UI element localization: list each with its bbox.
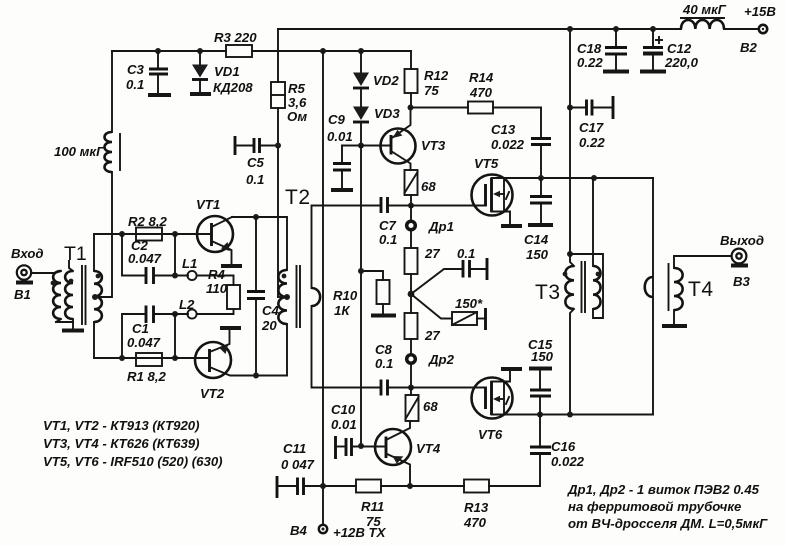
svg-text:68: 68 [421, 179, 436, 194]
ground below VD1 [190, 92, 211, 96]
wire C1 branch left [122, 314, 144, 358]
svg-text:C4: C4 [262, 303, 280, 318]
ferrite bead L2 [187, 309, 196, 318]
wire VT2 base branch x=175 [174, 314, 176, 358]
svg-text:Др2: Др2 [428, 352, 455, 367]
svg-text:T3: T3 [535, 281, 561, 304]
node junction B4 rail / bottom line [320, 483, 326, 489]
T3 phase dots [563, 272, 568, 277]
terminal B1 input [17, 265, 31, 279]
ground VT5 source [501, 224, 522, 228]
wire +15V right rail x=570 [569, 29, 571, 254]
svg-text:C16: C16 [551, 439, 576, 454]
wire C2 to L1 node [154, 275, 189, 277]
svg-text:В2: В2 [740, 40, 758, 55]
transformer T3 left winding [570, 254, 574, 266]
wire VT5 drain line y=178 [492, 177, 654, 179]
ground below C9 [331, 188, 353, 192]
diode VD2 [360, 51, 362, 73]
wire bias line x=361 down [360, 146, 362, 447]
svg-text:R1 8,2: R1 8,2 [127, 369, 167, 384]
capacitor C4 [255, 217, 257, 375]
svg-text:0.1: 0.1 [246, 172, 264, 187]
svg-text:L2: L2 [179, 297, 195, 312]
svg-text:R11: R11 [361, 499, 384, 514]
svg-text:R12: R12 [424, 68, 449, 83]
transformer T3 core [582, 262, 586, 312]
svg-text:В4: В4 [290, 523, 308, 538]
svg-text:0.1: 0.1 [375, 356, 393, 371]
svg-text:C13: C13 [491, 122, 516, 137]
node junction T3 right top / drain line [591, 175, 597, 181]
svg-text:L1: L1 [182, 256, 197, 271]
node junction R12/R14/VT3 [408, 105, 414, 111]
svg-text:VT1: VT1 [196, 197, 220, 212]
svg-text:VT1, VT2 - КТ913 (КТ920): VT1, VT2 - КТ913 (КТ920) [43, 418, 200, 433]
svg-text:75: 75 [424, 83, 439, 98]
wire B1 to T1 primary [31, 271, 61, 273]
diode VD3 [360, 90, 362, 107]
svg-text:T1: T1 [64, 243, 87, 265]
transformer T2 secondary winding [312, 288, 321, 306]
svg-text:0.1: 0.1 [126, 77, 144, 92]
wire R11 to VT4 collector node [381, 485, 464, 487]
ground VT1 emitter [221, 264, 242, 268]
resistor R4 [227, 285, 240, 309]
node junction C18/top bus [613, 26, 619, 32]
svg-text:C1: C1 [132, 321, 149, 336]
transistor VT6 MOSFET [472, 378, 513, 419]
wire T2 secondary bottom to gate line [312, 306, 382, 388]
svg-text:150: 150 [531, 349, 554, 364]
inductor L 40mkG [681, 20, 724, 29]
wire left rail down to choke [111, 51, 113, 132]
capacitor C17 [570, 107, 585, 109]
svg-text:27: 27 [424, 246, 440, 261]
wire T1 winding common to ground [72, 319, 74, 328]
svg-text:100 мкГ: 100 мкГ [54, 144, 105, 159]
svg-text:на ферритовой трубочке: на ферритовой трубочке [568, 499, 741, 514]
capacitor C1 [146, 306, 154, 324]
node junction +12V rail at y=51 [320, 48, 326, 54]
capacitor C16 [539, 415, 541, 487]
wire R4 bottom to L2 line [197, 309, 234, 314]
wire VT3 base line [342, 145, 391, 147]
svg-text:R2 8,2: R2 8,2 [128, 214, 168, 229]
svg-text:0 047: 0 047 [281, 457, 315, 472]
transformer T1 core [82, 266, 86, 324]
choke bead Dr1 [410, 206, 412, 221]
node junction centre tap of emitter chain [408, 291, 415, 298]
svg-text:0.022: 0.022 [551, 454, 585, 469]
node junction R2 line x=175 [172, 231, 178, 237]
node junction C4 top [253, 214, 259, 220]
svg-text:В3: В3 [733, 274, 751, 289]
wire T3 right winding top [592, 178, 594, 266]
resistor 68 upper (VT3 emitter) [405, 170, 418, 195]
capacitor C7 [381, 197, 388, 213]
wire choke to T1 centre tap [95, 172, 112, 297]
svg-text:75: 75 [366, 514, 381, 529]
svg-text:VD3: VD3 [374, 106, 400, 121]
wire output loop right side [652, 178, 654, 415]
svg-text:0.01: 0.01 [327, 129, 353, 144]
wire T2 primary bottom [256, 324, 287, 376]
svg-text:T2: T2 [285, 186, 311, 209]
wire T4 secondary top to B3 [674, 256, 731, 268]
svg-text:Др1: Др1 [428, 219, 454, 234]
svg-text:C8: C8 [375, 342, 393, 357]
svg-text:C11: C11 [283, 441, 306, 456]
node junction right rail / top bus [567, 26, 573, 32]
wire T1 primary bottom to common [56, 319, 73, 322]
node junction C4 bottom / VT2 collector [253, 373, 259, 379]
transformer T2 core [297, 266, 301, 327]
node junction T3 left bottom / VT6 drain line [567, 412, 573, 418]
ground T1 [62, 329, 84, 333]
svg-text:220,0: 220,0 [664, 55, 699, 70]
node junction C12/top bus [650, 26, 656, 32]
svg-text:0.022: 0.022 [491, 137, 525, 152]
wire gate line to VT5 [387, 205, 486, 207]
svg-text:VT5, VT6 - IRF510 (520) (630): VT5, VT6 - IRF510 (520) (630) [43, 454, 223, 469]
svg-text:R14: R14 [469, 70, 494, 85]
capacitor C2 [146, 267, 154, 284]
svg-text:27: 27 [424, 328, 440, 343]
ground below C14 [528, 223, 553, 227]
capacitor C13 [540, 108, 542, 178]
wire +15V top bus y=29 [278, 28, 758, 30]
wire VT6 drain line y=414.5 [492, 414, 654, 416]
transformer T4 core [668, 264, 670, 310]
capacitor C14 [540, 178, 542, 223]
resistor R5 [277, 29, 279, 297]
svg-text:R5: R5 [288, 81, 306, 96]
transistor VT1 [197, 216, 233, 252]
transformer T2 primary winding [278, 270, 287, 324]
transformer T3 right winding [593, 266, 601, 309]
resistor R11 [356, 480, 381, 493]
node T2 primary centre tap [284, 294, 290, 300]
svg-text:C5: C5 [247, 155, 265, 170]
T2 phase dot [282, 274, 287, 279]
node junction C3 [155, 48, 161, 54]
ground below C3 [148, 93, 171, 97]
node junction C17 [567, 105, 573, 111]
svg-text:C14: C14 [524, 232, 549, 247]
node junction R1 line x=122 [119, 355, 125, 361]
wire T3 right winding bottom loop [570, 254, 603, 318]
choke bead Dr2 [407, 355, 416, 364]
node junction C2/L1 [172, 273, 178, 279]
terminal B3 output [732, 249, 747, 264]
svg-text:C12: C12 [667, 41, 692, 56]
svg-text:C7: C7 [379, 218, 397, 233]
svg-text:40 мкГ: 40 мкГ [682, 2, 727, 17]
node junction VD1 [197, 48, 203, 54]
wire T1 middle winding top stub [69, 261, 73, 271]
resistor R13 [464, 480, 489, 493]
wire gate line to VT6 [387, 387, 486, 389]
svg-text:C17: C17 [579, 120, 604, 135]
svg-text:C18: C18 [577, 41, 602, 56]
wire R13 to C16 [489, 485, 540, 487]
svg-text:VT3, VT4 - КТ626 (КТ639): VT3, VT4 - КТ626 (КТ639) [43, 436, 200, 451]
inductor choke 100mkG [105, 132, 113, 172]
capacitor 0.1 test stub [411, 269, 461, 294]
svg-text:VT4: VT4 [416, 441, 441, 456]
node T1 secondary centre tap [92, 294, 98, 300]
svg-text:0.047: 0.047 [127, 335, 161, 350]
wire T2 secondary top to gate line [312, 206, 382, 289]
resistor R3 [226, 45, 252, 57]
wire +12V TX rail [322, 51, 324, 525]
capacitor C8 [381, 380, 388, 396]
svg-text:150*: 150* [455, 296, 483, 311]
svg-text:1К: 1К [334, 303, 350, 318]
svg-text:C10: C10 [331, 402, 356, 417]
svg-text:470: 470 [463, 515, 487, 530]
svg-text:20: 20 [261, 318, 277, 333]
transistor VT3 [381, 129, 416, 164]
node junction VT4 base / bias line [358, 443, 364, 449]
diode VD1 KD208 [199, 51, 201, 92]
ferrite bead L1 [187, 271, 196, 280]
node junction VD2 chain at y=51 [358, 48, 364, 54]
svg-text:T4: T4 [688, 278, 714, 301]
svg-text:КД208: КД208 [213, 80, 253, 95]
transistor VT4 [375, 429, 411, 465]
transformer T4 secondary winding [674, 268, 683, 310]
node junction C1/L2 [172, 311, 178, 317]
capacitor C18 [615, 29, 617, 70]
svg-text:Др1, Др2 - 1 виток ПЭВ2 0.45: Др1, Др2 - 1 виток ПЭВ2 0.45 [567, 482, 760, 497]
resistor R12 [410, 51, 412, 108]
svg-text:0.01: 0.01 [331, 417, 357, 432]
node junction C15/C16/VT6 drain [537, 412, 543, 418]
node junction R2 line x=122 [119, 231, 125, 237]
resistor 68 lower (VT4 emitter) [410, 388, 412, 396]
svg-text:VT3: VT3 [421, 138, 446, 153]
svg-text:R10: R10 [333, 288, 358, 303]
wire VT1 collector to T2 top y=217 [232, 217, 287, 270]
wire T1 secondary top to R2 line [94, 234, 197, 271]
svg-text:VT2: VT2 [200, 386, 225, 401]
transformer T1 secondary winding [94, 271, 102, 322]
resistor 150* test stub [411, 294, 452, 319]
capacitor C9 [341, 146, 343, 189]
node junction VT3 base / bias [358, 143, 364, 149]
capacitor C11 [276, 476, 279, 498]
svg-text:150: 150 [526, 247, 549, 262]
svg-text:C9: C9 [328, 112, 346, 127]
transistor VT2 [195, 342, 231, 378]
ground below C18 [603, 70, 629, 74]
transformer T1 middle winding [65, 271, 73, 319]
transistor VT5 MOSFET [472, 175, 513, 216]
capacitor C15 [529, 367, 552, 371]
svg-text:0.1: 0.1 [379, 232, 397, 247]
resistor R14 [411, 107, 542, 109]
ground T4 [662, 324, 687, 328]
capacitor C10 [334, 436, 337, 459]
node junction C13/C14/VT5 drain [538, 175, 544, 181]
wire C1 to L2 node [154, 313, 189, 315]
capacitor C3 [157, 51, 159, 93]
svg-text:470: 470 [469, 85, 493, 100]
node junction gate line VT5 / 68 [408, 203, 414, 209]
resistor R2 [136, 228, 162, 241]
svg-text:VD2: VD2 [373, 73, 399, 88]
svg-text:R4: R4 [208, 267, 226, 282]
svg-text:68: 68 [423, 399, 438, 414]
wire R5 to T2 centre tap [278, 296, 287, 298]
svg-text:R3 220: R3 220 [214, 30, 257, 45]
svg-text:Ом: Ом [287, 109, 307, 124]
wire C2 branch left [122, 234, 144, 276]
terminal B4 [319, 525, 327, 533]
svg-text:0.047: 0.047 [128, 251, 162, 266]
svg-text:В1: В1 [14, 287, 31, 302]
node junction VT4 collector / bottom line [407, 483, 413, 489]
resistor 27 lower [405, 313, 418, 339]
node junction gate line VT6 / 68 [408, 385, 414, 391]
resistor R1 [136, 353, 162, 366]
T1 phase dots [51, 281, 56, 286]
transformer T1 primary winding [53, 271, 61, 319]
node junction C5 on R5 line [275, 143, 281, 149]
capacitor C5 [234, 136, 237, 155]
wire T4 secondary bottom to ground [673, 310, 675, 324]
transformer T4 primary bump [645, 277, 653, 297]
svg-text:+15В: +15В [744, 4, 776, 19]
svg-text:110: 110 [206, 281, 228, 296]
wire VD3 to VT3 base node [360, 124, 362, 146]
svg-text:C3: C3 [127, 62, 145, 77]
svg-text:0.1: 0.1 [457, 246, 475, 261]
wire +12V TX distribution line y=51 [112, 50, 411, 52]
svg-text:VT6: VT6 [478, 427, 503, 442]
wire VT1 base branch x=175 [174, 234, 176, 276]
svg-text:0.22: 0.22 [577, 55, 603, 70]
ground VT6 source (above) [501, 367, 522, 371]
svg-text:3,6: 3,6 [288, 95, 307, 110]
capacitor C12 electrolytic [652, 29, 654, 70]
ground VT2 emitter [220, 326, 241, 330]
ground below R10 [371, 314, 396, 318]
resistor 27 upper [410, 231, 412, 248]
wire T1 secondary bottom to R1 line [94, 322, 196, 358]
ground below C12 [640, 70, 666, 74]
svg-text:Выход: Выход [720, 233, 764, 248]
node junction T3 left winding top [567, 251, 573, 257]
svg-text:0.22: 0.22 [579, 135, 605, 150]
svg-text:VT5: VT5 [474, 156, 499, 171]
node junction R1 line x=175 [172, 355, 178, 361]
resistor R10 [361, 271, 383, 280]
svg-text:Вход: Вход [11, 246, 44, 261]
svg-text:от ВЧ-дросселя ДМ. L=0,5мкГ: от ВЧ-дросселя ДМ. L=0,5мкГ [568, 516, 768, 531]
svg-text:VD1: VD1 [214, 64, 240, 79]
wire L1 to R4 top [197, 276, 234, 286]
terminal B2 +15V [759, 25, 767, 33]
svg-text:R13: R13 [464, 500, 489, 515]
